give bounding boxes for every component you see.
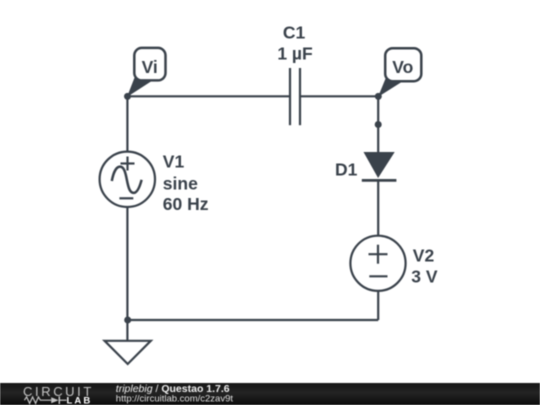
wire Vi node down to V1 top <box>126 96 128 152</box>
svg-text:1 µF: 1 µF <box>277 43 313 63</box>
node A (Vi junction) <box>124 93 131 100</box>
svg-text:V1: V1 <box>163 151 185 171</box>
svg-text:LAB: LAB <box>67 395 93 405</box>
wire diode cathode to V2 top <box>377 181 379 237</box>
footer logo zigzag and diode <box>24 397 66 404</box>
svg-text:http://circuitlab.com/c2zav9t: http://circuitlab.com/c2zav9t <box>116 393 234 404</box>
wire Vo node down to diode anode <box>377 96 379 152</box>
wire top left (Vi node to C1 left plate) <box>128 95 291 97</box>
svg-text:Vo: Vo <box>392 57 413 77</box>
node C (diode top junction) <box>375 121 382 128</box>
flag Vi <box>127 48 166 97</box>
svg-text:V2: V2 <box>413 245 435 265</box>
svg-text:D1: D1 <box>335 159 358 179</box>
ground <box>105 341 151 364</box>
svg-text:Vi: Vi <box>142 57 158 77</box>
wire top right (C1 right plate to Vo node) <box>300 95 378 97</box>
diode D1 <box>362 152 397 180</box>
wire bottom (ground node to V2 bottom) <box>127 319 378 321</box>
svg-text:3 V: 3 V <box>411 267 438 287</box>
capacitor C1 <box>290 68 300 125</box>
svg-text:60 Hz: 60 Hz <box>163 194 209 214</box>
node B (Vo junction) <box>375 93 382 100</box>
svg-text:sine: sine <box>163 173 198 193</box>
wire V2 bottom down <box>377 291 379 321</box>
wire ground stub <box>126 320 128 341</box>
node D (ground junction) <box>124 317 131 324</box>
wire V1 bottom to ground node <box>126 207 128 321</box>
voltage source V1 body <box>100 152 155 207</box>
svg-text:C1: C1 <box>283 22 306 42</box>
flag Vo <box>378 48 421 97</box>
voltage source V2 body <box>350 236 405 291</box>
footer bar <box>0 383 540 405</box>
